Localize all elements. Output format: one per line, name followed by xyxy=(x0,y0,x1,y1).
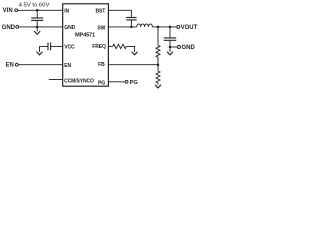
terminal GND (output) xyxy=(170,45,196,51)
wire VIN to IN xyxy=(18,9,63,11)
svg-text:BST: BST xyxy=(95,8,105,14)
svg-text:VIN: VIN xyxy=(3,8,13,14)
svg-text:FREQ: FREQ xyxy=(92,44,106,50)
wire EN to IC xyxy=(18,64,63,66)
ground (input) xyxy=(34,27,40,34)
node VOUT-COUT junction xyxy=(169,26,172,29)
op-amp U1 MP4571 IC body xyxy=(63,4,109,86)
wire FREQ xyxy=(108,45,112,47)
svg-text:PG: PG xyxy=(98,80,105,86)
wire R3 to ground xyxy=(126,46,134,52)
svg-text:VCC: VCC xyxy=(64,45,75,51)
node FB junction xyxy=(157,63,160,66)
svg-text:PG: PG xyxy=(130,80,138,86)
terminal VIN xyxy=(3,8,18,14)
svg-text:GND: GND xyxy=(182,45,196,51)
resistor R1 (FB top) xyxy=(156,27,160,71)
wire GND to IC xyxy=(19,26,63,28)
svg-text:EN: EN xyxy=(64,63,71,69)
wire SW xyxy=(108,26,136,28)
node SW-CBST junction xyxy=(130,26,133,29)
capacitor CIN xyxy=(31,10,43,27)
svg-text:SW: SW xyxy=(97,25,105,31)
node VIN-CIN junction xyxy=(36,9,39,12)
terminal GND (input) xyxy=(2,25,19,31)
svg-text:GND: GND xyxy=(2,25,16,31)
resistor R3 (FREQ) xyxy=(113,44,127,48)
inductor L1 xyxy=(137,24,153,27)
ground (CVCC) xyxy=(37,52,43,55)
svg-text:4.5V to 60V: 4.5V to 60V xyxy=(19,3,50,9)
ground (COUT) xyxy=(167,47,173,55)
capacitor CBST xyxy=(126,18,136,27)
svg-text:VOUT: VOUT xyxy=(181,25,198,31)
ground (FB divider) xyxy=(155,85,161,88)
wire BST xyxy=(108,10,131,17)
capacitor CVCC xyxy=(40,43,63,53)
svg-text:MP4571: MP4571 xyxy=(75,32,95,38)
wire PG xyxy=(108,81,125,83)
svg-text:FB: FB xyxy=(98,62,105,68)
wire CCM/SYNCO stub xyxy=(49,79,63,81)
wire L1 to VOUT xyxy=(152,26,177,28)
resistor R2 (FB bottom) xyxy=(156,71,160,85)
node VOUT-FB junction xyxy=(157,26,160,29)
svg-text:EN: EN xyxy=(6,63,14,69)
ground (FREQ) xyxy=(132,52,138,55)
capacitor COUT xyxy=(164,27,176,47)
terminal EN xyxy=(6,63,19,69)
terminal VOUT xyxy=(177,25,198,31)
svg-text:GND: GND xyxy=(64,25,75,31)
wire FB xyxy=(108,64,158,66)
node COUT-GND junction xyxy=(169,46,172,49)
node GND-CIN junction xyxy=(36,26,39,29)
svg-text:IN: IN xyxy=(64,9,69,15)
terminal PG xyxy=(125,80,137,86)
svg-text:CCM/SYNCO: CCM/SYNCO xyxy=(64,79,94,85)
